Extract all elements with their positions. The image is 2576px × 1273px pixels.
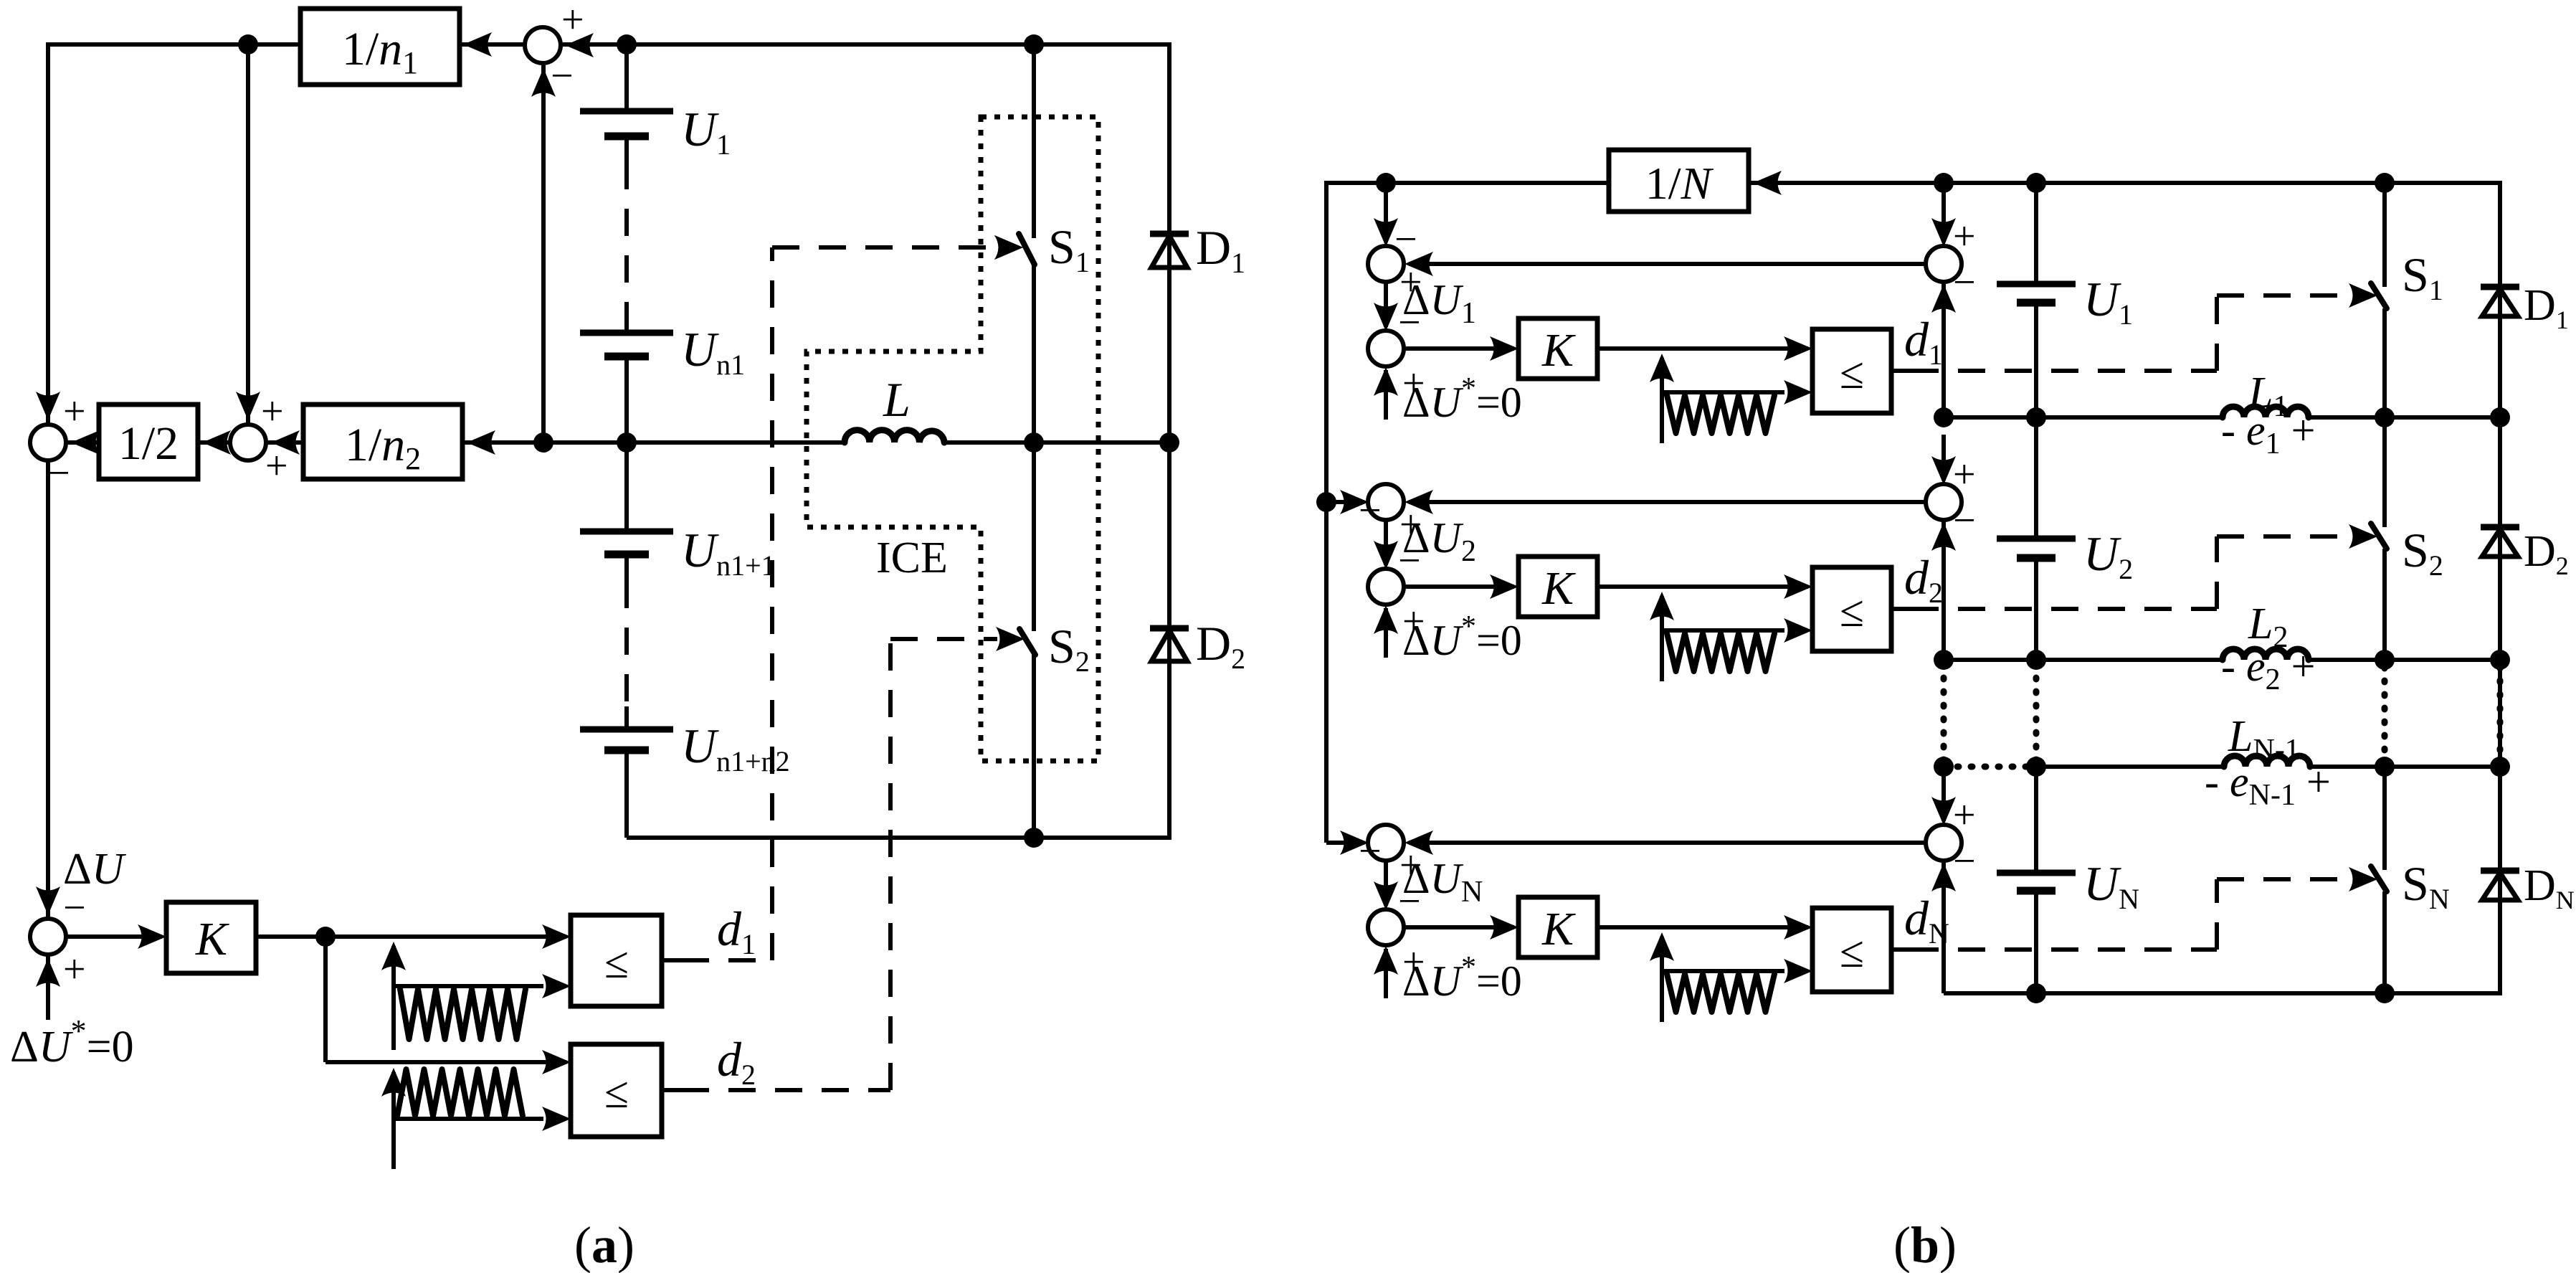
wire: Un1 battery to mid rail <box>624 356 629 443</box>
svg-text:+: + <box>63 389 86 434</box>
junction node x=2711 y=920 (b) <box>1934 650 1954 670</box>
control row 1 (b) <box>1384 183 1388 242</box>
svg-text:+: + <box>1953 453 1976 497</box>
junction node x=3326 y=920 (b) <box>2375 650 2395 670</box>
junction node x=2711 y=1069 (b) <box>1934 757 1954 777</box>
wire: mid rail y=617 left part <box>543 440 845 445</box>
wire: Un1+1 battery stub <box>624 554 629 581</box>
junction node x=3487 y=582 (b) <box>2490 407 2510 427</box>
switch S1 blade (b) <box>2371 283 2387 308</box>
right summer column feeds (b) <box>1941 183 1946 242</box>
arrow into summer S2a from 1/n2 <box>271 430 300 455</box>
svg-text:≤: ≤ <box>1840 928 1864 977</box>
summer control row 1 (b) <box>1368 331 1404 366</box>
diode D1 (a) <box>1150 231 1189 237</box>
switch column (b) <box>2382 183 2387 287</box>
switch SN blade (b) <box>2371 866 2387 891</box>
svg-text:≤: ≤ <box>1840 349 1864 398</box>
wire: U1 battery stub <box>624 136 629 162</box>
svg-text:−: − <box>1359 488 1382 533</box>
junction node after K (a) <box>315 927 336 947</box>
diode D1 (b) <box>2481 284 2519 290</box>
sawtooth carrier 1 (b) <box>1660 358 1664 443</box>
inductor L (a) <box>845 430 944 443</box>
battery U2 (b) <box>1997 536 2076 542</box>
wire: (b) left vertical <box>1324 183 1329 843</box>
wire: (b) left vertical to summer N <box>1326 841 1364 845</box>
svg-text:(a): (a) <box>574 1216 635 1273</box>
wire: mid rail to Un1+1 battery <box>624 443 629 531</box>
gate drive line dN (b) <box>1891 947 1911 952</box>
wire: (b) bottom rail y=1385 <box>1944 991 2502 995</box>
gain block 1/n1 <box>300 9 460 85</box>
junction node top battery (a) <box>617 34 637 55</box>
junction node mid feedback (a) <box>533 432 553 453</box>
comparator box 2 (a) <box>571 1044 662 1137</box>
wire: (a) right vertical x=1631 <box>1167 44 1171 838</box>
junction node bottom switch col (b) <box>2375 983 2395 1003</box>
svg-text:1/N: 1/N <box>1645 158 1714 209</box>
dotted column gap x=2840 (b) <box>2033 664 2040 762</box>
arrow into K box (a) <box>138 924 166 949</box>
gain block K row 1 (b) <box>1518 318 1597 379</box>
wire: (a) left vertical x=67 <box>46 44 50 919</box>
summer dU (a) <box>30 919 66 955</box>
junction node mid S column (a) <box>1024 432 1044 453</box>
junction node x=2840 y=920 (b) <box>2026 650 2046 670</box>
junction node top left summer col (b) <box>1376 173 1396 193</box>
wire: dashed battery stack gap U1..Un1 <box>624 162 629 308</box>
svg-text:≤: ≤ <box>604 939 629 988</box>
wire: dashed battery stack gap Un1+1..Un1+n2 <box>624 581 629 706</box>
gate drive line d2 (a) <box>662 1088 682 1092</box>
wire: node A to summer S2a top <box>246 44 250 423</box>
wire: stub to Un1+n2 battery <box>624 706 629 729</box>
wire: K box to comparator 1 (a) <box>256 934 566 939</box>
battery U1 (a) <box>580 108 673 115</box>
comparator box 1 (a) <box>571 915 662 1006</box>
wire: dU*=0 input stub (a) <box>46 955 50 1020</box>
summer right row 2 (b) <box>1926 484 1962 520</box>
svg-text:1/2: 1/2 <box>118 417 179 470</box>
svg-text:+: + <box>1953 793 1976 838</box>
svg-text:−: − <box>1359 829 1382 874</box>
arrow into 1/n1 box <box>463 32 492 57</box>
svg-text:−: − <box>1394 217 1417 262</box>
summer control row 2 (b) <box>1368 569 1404 605</box>
comparator box row N (b) <box>1812 908 1891 992</box>
arrow into 1/N box <box>1753 171 1782 195</box>
svg-text:+: + <box>1953 214 1976 259</box>
summer feedback row 1 (b) <box>1368 246 1404 282</box>
svg-text:K: K <box>1541 562 1576 615</box>
arrow up into top summer bottom <box>531 68 556 97</box>
summer left mid (a) <box>30 425 66 460</box>
wire: battery stack bottom to bottom rail <box>624 750 629 838</box>
junction node x=2840 y=1069 (b) <box>2026 757 2046 777</box>
gate drive line d2 (b) <box>1891 607 1911 611</box>
summer feedback row 2 (b) <box>1368 484 1404 520</box>
comparator box row 1 (b) <box>1812 329 1891 413</box>
battery U1 (b) <box>1997 281 2076 288</box>
diode DN (b) <box>2481 868 2519 874</box>
dotted column gap x=3487 (b) <box>2497 667 2504 760</box>
wire: summer S2a to 1/2 box <box>198 440 230 445</box>
arrow into comparator 1 (a) <box>542 924 571 949</box>
switch S2 blade (a) <box>1020 629 1035 655</box>
wire: S1 upper lead <box>1032 44 1036 238</box>
svg-text:+: + <box>63 947 86 992</box>
battery Un1+1 (a) <box>580 529 673 535</box>
junction node left vertical row2 (b) <box>1316 492 1336 512</box>
svg-text:K: K <box>1541 324 1576 377</box>
svg-text:L: L <box>883 372 911 427</box>
gain block 1/N (b) <box>1609 150 1749 212</box>
svg-text:−: − <box>1953 839 1976 884</box>
battery Un1 (a) <box>580 330 673 336</box>
switch S2 blade (b) <box>2371 524 2387 549</box>
summer top (a) <box>525 27 561 63</box>
summer control row N (b) <box>1368 909 1404 945</box>
inductor line L2 (b) <box>1944 658 2223 662</box>
junction node bottom battery col (b) <box>2026 983 2046 1003</box>
summer mid (a) <box>230 425 266 460</box>
junction node top S column (a) <box>1024 34 1044 55</box>
ICE dotted boundary box <box>807 117 1098 761</box>
comparator box row 2 (b) <box>1812 567 1891 651</box>
svg-text:−: − <box>1953 498 1976 543</box>
wire: (b) top rail y=255 <box>1324 181 2502 185</box>
wire: (a) bottom rail y=1168 <box>627 836 1171 840</box>
junction node bottom S column (a) <box>1024 828 1044 848</box>
summer feedback row N (b) <box>1368 825 1404 861</box>
battery Un1+n2 (a) <box>580 727 673 733</box>
wire: 1/n2 box to summer S2a <box>267 440 303 445</box>
wire: feedback node to top summer bottom <box>541 65 546 443</box>
wire: (b) left vertical to summer 2 <box>1326 500 1364 504</box>
gate drive line d1 (a) <box>662 958 682 962</box>
arrow into 1/n2 box <box>467 430 495 455</box>
diode D2 (b) <box>2481 524 2519 531</box>
junction node x=2840 y=582 (b) <box>2026 407 2046 427</box>
sawtooth carrier N (b) <box>1660 937 1664 1022</box>
wire: mid rail y=617 right part <box>944 440 1169 445</box>
svg-text:K: K <box>195 913 229 965</box>
gain block K (a) <box>166 902 256 973</box>
wire: mid rail into 1/n2 box <box>462 440 543 445</box>
svg-text:+: + <box>561 0 584 42</box>
arrow into dU summer top <box>36 886 60 915</box>
wire: S1 lower lead / S2 upper lead <box>1032 265 1036 631</box>
dotted column gap x=2711 (b) <box>1941 664 1947 762</box>
junction node top right summer col (b) <box>1934 173 1954 193</box>
battery column (b) <box>2034 183 2038 284</box>
control row N (b) <box>1340 830 1369 855</box>
svg-text:−: − <box>551 54 574 98</box>
summer right row N (b) <box>1926 825 1962 861</box>
battery UN (b) <box>1997 870 2076 876</box>
svg-text:ICE: ICE <box>876 534 948 582</box>
sawtooth carrier 2 (b) <box>1660 596 1664 681</box>
svg-text:+: + <box>261 389 284 434</box>
diode D2 (a) <box>1150 625 1189 632</box>
wire: 1/2 box to summer S1a <box>67 440 99 445</box>
inductor line LN-1 (b) <box>1944 764 2036 770</box>
wire: top rail to U1 battery <box>624 44 629 111</box>
svg-text:+: + <box>265 444 288 488</box>
wire: summer out to K box (a) <box>67 934 162 939</box>
junction node top-left (a) <box>238 34 258 55</box>
summer right row 1 (b) <box>1926 246 1962 282</box>
junction node x=3487 y=1069 (b) <box>2490 757 2510 777</box>
wire: stub to Un1 battery <box>624 308 629 333</box>
wire: (a) top rail y=62 <box>46 42 1171 47</box>
junction node x=3487 y=920 (b) <box>2490 650 2510 670</box>
arrow into summer S1a top <box>36 392 60 420</box>
wire: (b) right vertical x=3487 <box>2498 183 2502 993</box>
wire: branch to comparator 2 upper input (a) <box>325 1060 566 1064</box>
junction node mid battery (a) <box>617 432 637 453</box>
arrow into summer S2a top <box>236 392 260 420</box>
svg-text:−: − <box>1953 260 1976 305</box>
dotted column gap x=3326 (b) <box>2382 667 2388 760</box>
gate drive line d1 (b) <box>1891 369 1911 373</box>
wire: (b) right summer N bottom feed <box>1941 860 1946 993</box>
switch S1 blade (a) <box>1019 234 1035 265</box>
inductor line L1 (b) <box>1944 415 2223 420</box>
svg-text:K: K <box>1541 903 1576 955</box>
arrow into 1/2 box <box>202 430 231 455</box>
arrow into dU summer bottom <box>36 958 60 987</box>
junction node x=2711 y=582 (b) <box>1934 407 1954 427</box>
wire: S2 lower lead <box>1032 655 1036 838</box>
arrow into comparator 2 (a) <box>542 1050 571 1074</box>
gain block 1/n2 <box>303 404 462 479</box>
junction node top switch col (b) <box>2375 173 2395 193</box>
svg-text:−: − <box>47 451 70 496</box>
arrow into summer S1a from 1/2 <box>71 430 100 455</box>
control row 2 (b) <box>1340 490 1369 514</box>
svg-text:(b): (b) <box>1893 1216 1957 1273</box>
sawtooth carrier 1 (a) <box>391 946 396 1050</box>
sawtooth carrier 2 (a) <box>391 1072 396 1169</box>
svg-text:ΔU: ΔU <box>63 845 127 894</box>
junction node x=3326 y=582 (b) <box>2375 407 2395 427</box>
junction node x=3326 y=1069 (b) <box>2375 757 2395 777</box>
gain block 1/2 <box>99 404 198 479</box>
gain block K row 2 (b) <box>1518 557 1597 617</box>
wire: branch down to comparator 2 (a) <box>323 937 328 1062</box>
svg-text:≤: ≤ <box>604 1069 629 1117</box>
arrow into top summer from right <box>565 33 594 57</box>
svg-text:≤: ≤ <box>1840 587 1864 636</box>
junction node top battery col (b) <box>2026 173 2046 193</box>
gain block K row N (b) <box>1518 897 1597 957</box>
junction node mid right rail (a) <box>1159 432 1179 453</box>
